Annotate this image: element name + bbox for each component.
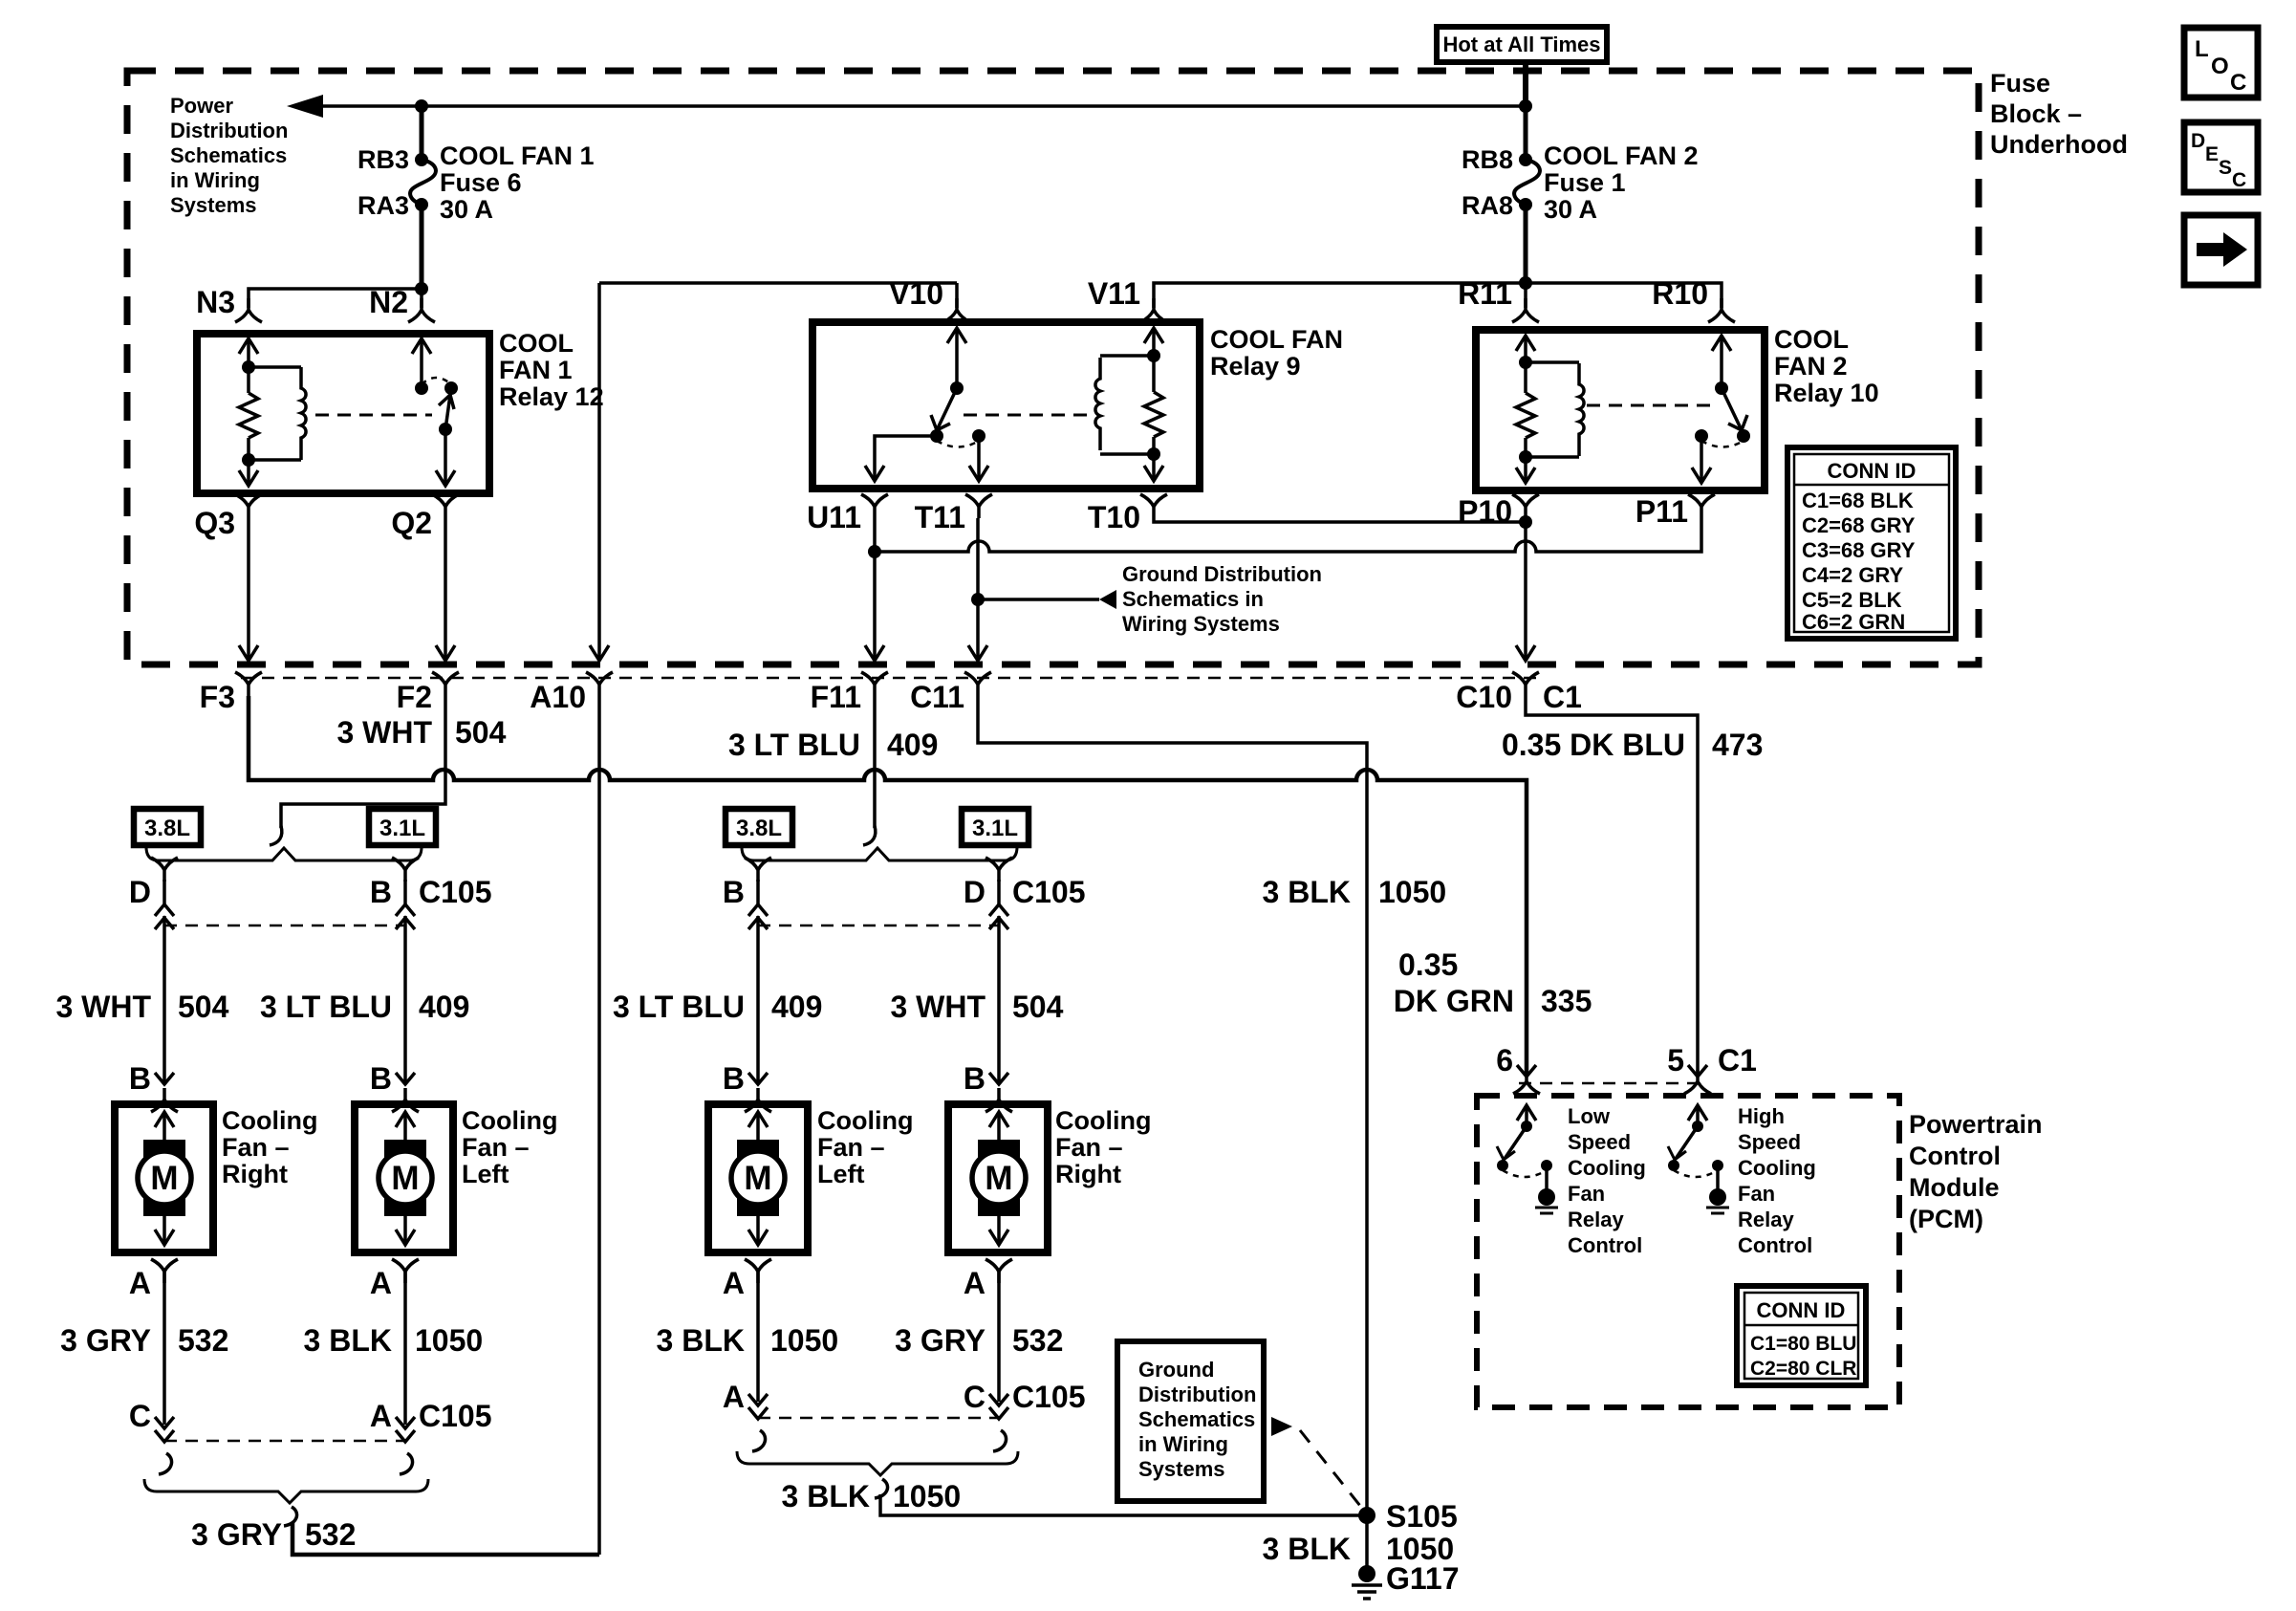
svg-text:F11: F11	[811, 680, 861, 714]
svg-text:409: 409	[771, 990, 822, 1024]
coil winding in relay 9	[1095, 356, 1154, 454]
connector F11	[861, 672, 888, 696]
motor M3: Cooling Fan Left box (middle group)	[708, 1104, 808, 1252]
svg-text:3 LT BLU: 3 LT BLU	[728, 728, 860, 762]
connector C11	[964, 672, 991, 696]
wire label: 0.35 DK GRN 335 (pin 6 net)	[1394, 947, 1592, 1018]
svg-text:1050: 1050	[1378, 875, 1446, 909]
connector R10	[1708, 298, 1735, 322]
svg-text:L: L	[2195, 36, 2209, 62]
wire: fuse 1 to R11/R10 junction	[1524, 205, 1528, 283]
wire: F3 to low-speed control bus to PCM pin 6, hops at F2/A10/F11/1050 net	[249, 696, 1527, 1073]
svg-text:Fuse 1: Fuse 1	[1544, 168, 1626, 197]
svg-text:RB3: RB3	[357, 145, 409, 174]
svg-text:C105: C105	[1012, 1380, 1086, 1414]
svg-text:Right: Right	[222, 1160, 288, 1188]
connector C at C105 (middle group bottom)	[964, 1380, 1008, 1419]
label: Cooling Fan - Right (left group)	[222, 1106, 317, 1188]
svg-text:A: A	[129, 1266, 151, 1300]
svg-text:C3=68 GRY: C3=68 GRY	[1802, 538, 1916, 562]
dashed C105 line (left group bottom)	[164, 1440, 405, 1443]
connector V10	[943, 298, 970, 322]
connector D at C105 (middle group 3.1L)	[986, 858, 1012, 929]
connector Q3	[235, 494, 262, 518]
resistor in relay 9	[1144, 356, 1163, 454]
svg-text:Control: Control	[1909, 1142, 2001, 1170]
wire label: 3 GRY 532 (merged)	[191, 1517, 356, 1552]
svg-text:Low: Low	[1568, 1104, 1611, 1128]
svg-text:Ground Distribution: Ground Distribution	[1122, 562, 1322, 586]
splice S105	[1358, 1507, 1375, 1524]
relay 9 coil exit to T10	[1144, 447, 1163, 481]
label: Powertrain Control Module (PCM)	[1909, 1110, 2043, 1233]
svg-text:532: 532	[305, 1517, 356, 1552]
relay 10 coil entry from R11	[1516, 336, 1535, 369]
connector A10	[586, 672, 613, 696]
connector A at C105 (middle group bottom)	[723, 1380, 768, 1419]
label: Cooling Fan - Left (middle group)	[817, 1106, 913, 1188]
svg-text:F2: F2	[397, 680, 432, 714]
svg-text:C2=68 GRY: C2=68 GRY	[1802, 513, 1916, 537]
label: COOL FAN 2 Fuse 1 30 A	[1544, 142, 1699, 224]
wire to ground distribution reference	[978, 598, 1099, 601]
wire: T10 to P10 junction	[1154, 518, 1526, 522]
svg-text:1050: 1050	[415, 1323, 483, 1358]
relay 10 blade rest contact	[1737, 429, 1750, 443]
svg-text:Schematics: Schematics	[170, 143, 287, 167]
junction: T11 ground reference tap	[971, 593, 985, 606]
svg-text:FAN 1: FAN 1	[499, 356, 573, 384]
svg-text:C105: C105	[1012, 875, 1086, 909]
wire: battery feed bus at top, arrow to power distribution	[321, 104, 1526, 108]
svg-text:COOL FAN: COOL FAN	[1210, 325, 1343, 354]
fuse block dashed box: Fuse Block - Underhood	[127, 71, 1979, 664]
relay 12 coil leg exit to Q3	[239, 453, 258, 486]
svg-text:C5=2 BLK: C5=2 BLK	[1802, 588, 1902, 612]
svg-text:(PCM): (PCM)	[1909, 1205, 1983, 1233]
svg-text:D: D	[129, 875, 151, 909]
junction: T10/P10	[1519, 515, 1532, 529]
svg-text:Cooling: Cooling	[817, 1106, 913, 1135]
wire label: 3 BLK 1050 (merged middle)	[782, 1479, 962, 1513]
svg-text:Relay 9: Relay 9	[1210, 352, 1301, 381]
boxed note: Ground Distribution Schematics in Wiring Systems	[1117, 1341, 1264, 1501]
brace joining 3.8L/3.1L branches (left group)	[146, 847, 422, 860]
svg-text:DK GRN: DK GRN	[1394, 984, 1514, 1018]
svg-text:A: A	[370, 1399, 392, 1433]
relay 9 switch blade with arrow	[931, 388, 957, 430]
wire: T11 down to C11	[968, 518, 987, 661]
motor M4: Cooling Fan Right box (middle group)	[948, 1104, 1048, 1252]
svg-text:Relay 12: Relay 12	[499, 382, 604, 411]
relay 12 switch common from N2	[412, 338, 431, 395]
relay 12 blade pivot	[439, 423, 452, 436]
svg-text:T11: T11	[915, 500, 965, 534]
svg-text:30 A: 30 A	[440, 195, 493, 224]
svg-text:Cooling: Cooling	[1568, 1156, 1646, 1180]
wire label: 3 GRY 532 (left group)	[60, 1323, 228, 1358]
wire label: 3 BLK 1050 (middle group)	[657, 1323, 839, 1358]
variant box 3.8L (left group)	[134, 809, 201, 845]
svg-text:C: C	[964, 1380, 986, 1414]
wire: D down to right fan	[162, 916, 166, 1082]
svg-text:Cooling: Cooling	[1055, 1106, 1151, 1135]
label: Cooling Fan - Left (left group)	[462, 1106, 557, 1188]
icon box forward arrow	[2184, 215, 2258, 285]
svg-text:C: C	[2232, 169, 2246, 191]
svg-text:Speed: Speed	[1568, 1130, 1631, 1154]
svg-text:Right: Right	[1055, 1160, 1121, 1188]
relay 12 switch throw contact	[444, 381, 458, 395]
connector F3	[235, 672, 262, 696]
connector C10	[1512, 672, 1539, 696]
relay 12 actuation dashed link	[315, 414, 432, 417]
svg-text:Fuse 6: Fuse 6	[440, 168, 522, 197]
svg-text:D: D	[2191, 130, 2205, 152]
thin dashed connector row under fuse block	[241, 677, 1544, 680]
relay 12 coil leg entry pin (from N3)	[239, 338, 258, 374]
PCM pin 6 connector	[1513, 1065, 1540, 1094]
svg-text:0.35: 0.35	[1398, 947, 1458, 982]
connector V11	[1140, 298, 1167, 322]
svg-text:RA8: RA8	[1462, 191, 1513, 220]
dashed C105 line (middle group bottom)	[758, 1417, 999, 1420]
svg-text:C105: C105	[419, 1399, 492, 1433]
svg-text:C: C	[2230, 70, 2246, 96]
svg-text:Control: Control	[1738, 1233, 1812, 1257]
relay 9 blade contact (to U11)	[930, 429, 943, 443]
svg-text:U11: U11	[807, 500, 861, 534]
svg-text:532: 532	[1012, 1323, 1063, 1358]
svg-text:A10: A10	[530, 680, 586, 714]
svg-text:3 BLK: 3 BLK	[304, 1323, 392, 1358]
connector T10	[1140, 494, 1167, 518]
wire: down to N2	[420, 289, 423, 308]
relay 9 output to T11	[969, 436, 988, 481]
svg-text:Cooling: Cooling	[222, 1106, 317, 1135]
wire Q2 down to F2	[436, 518, 455, 661]
relay 9 coil entry from V11	[1144, 328, 1163, 362]
wire: B down to left fan (middle)	[756, 916, 760, 1082]
svg-text:RB8: RB8	[1462, 145, 1513, 174]
svg-text:409: 409	[887, 728, 938, 762]
fan pin B connector (middle group right fan)	[964, 1061, 1012, 1112]
fan pin B connector (left group left fan)	[370, 1061, 419, 1112]
svg-text:C6=2 GRN: C6=2 GRN	[1802, 610, 1905, 634]
brace merging left group grounds	[144, 1479, 428, 1503]
variant box 3.1L (middle group)	[962, 809, 1029, 845]
wire: branch to N3	[249, 289, 422, 308]
wire: A10 drop inside fuse block	[590, 283, 609, 661]
wire: A10 riser below fuse block	[597, 696, 601, 1555]
svg-text:RA3: RA3	[357, 191, 409, 220]
fuse F1: COOL FAN 2 Fuse 1 30 A	[1514, 153, 1540, 211]
motor M3 internals	[731, 1112, 785, 1245]
svg-text:A: A	[964, 1266, 986, 1300]
fan pin A connector (left group right fan)	[129, 1259, 178, 1425]
svg-text:V11: V11	[1088, 276, 1140, 311]
svg-text:Distribution: Distribution	[170, 119, 288, 142]
svg-text:in Wiring: in Wiring	[1138, 1432, 1228, 1456]
connector B at C105 (left group 3.1L)	[392, 858, 419, 929]
svg-text:Module: Module	[1909, 1173, 2000, 1202]
wire: A10/V10 net horizontal	[599, 281, 957, 285]
connector N3	[235, 298, 262, 322]
svg-text:Fan –: Fan –	[1055, 1133, 1123, 1162]
motor M1: Cooling Fan Right box (left group)	[115, 1104, 213, 1252]
pigtail below A (middle group)	[752, 1430, 766, 1451]
svg-text:S: S	[2219, 157, 2232, 179]
svg-text:Fuse: Fuse	[1990, 69, 2050, 98]
svg-text:473: 473	[1712, 728, 1763, 762]
svg-text:504: 504	[1012, 990, 1064, 1024]
motor M1 internals	[138, 1112, 191, 1245]
brace merging middle group grounds	[737, 1451, 1018, 1475]
svg-text:COOL FAN 1: COOL FAN 1	[440, 142, 595, 170]
svg-text:F3: F3	[200, 680, 235, 714]
wire: down to R11	[1524, 283, 1527, 308]
wire: P10 down to C10	[1516, 518, 1535, 661]
pigtail below C (left group)	[159, 1453, 172, 1474]
svg-text:Left: Left	[817, 1160, 865, 1188]
svg-text:532: 532	[178, 1323, 228, 1358]
svg-text:504: 504	[178, 990, 229, 1024]
svg-text:Schematics: Schematics	[1138, 1407, 1255, 1431]
svg-text:A: A	[723, 1266, 745, 1300]
wire: V11 riser to fuse 1 feed	[1154, 283, 1526, 308]
connector A at C105 (left group bottom)	[370, 1399, 415, 1442]
svg-text:Control: Control	[1568, 1233, 1642, 1257]
svg-text:Distribution: Distribution	[1138, 1382, 1256, 1406]
label: High Speed Cooling Fan Relay Control	[1738, 1104, 1816, 1257]
label: Low Speed Cooling Fan Relay Control	[1568, 1104, 1646, 1257]
svg-text:1050: 1050	[893, 1479, 961, 1513]
svg-text:3 GRY: 3 GRY	[191, 1517, 282, 1552]
svg-text:C1=80 BLU: C1=80 BLU	[1750, 1333, 1856, 1355]
label: COOL FAN 1 Fuse 6 30 A	[440, 142, 595, 224]
svg-text:3 WHT: 3 WHT	[55, 990, 151, 1024]
arrow: off-page to power distribution (filled, pointing left)	[287, 95, 323, 118]
svg-text:P11: P11	[1635, 494, 1688, 529]
wire: C10 down, jog right, down to PCM pin 5	[1526, 696, 1698, 1073]
dashed arc between relay 9 contacts	[937, 441, 979, 447]
coil winding in relay 10	[1526, 362, 1584, 457]
connector Q2	[432, 494, 459, 518]
CONN ID table (PCM)	[1737, 1286, 1866, 1385]
wire label: 3 LT BLU 409	[728, 728, 938, 762]
wire label: 0.35 DK BLU 473	[1502, 728, 1763, 762]
wire: feed down to fuse 6	[420, 106, 424, 160]
pigtail below A (left group)	[400, 1453, 413, 1474]
wire: C11 down, jog right, down to S105 (3 BLK 1050)	[978, 696, 1367, 1515]
svg-text:Systems: Systems	[170, 193, 257, 217]
svg-text:A: A	[723, 1380, 745, 1414]
svg-text:5: 5	[1667, 1043, 1684, 1078]
variant box 3.8L (middle group)	[726, 809, 792, 845]
dashed C105 line (middle group top)	[758, 925, 999, 927]
svg-text:COOL: COOL	[1774, 325, 1849, 354]
dashed arc between relay 10 contacts	[1701, 441, 1744, 447]
relay 9 switch common from V10	[947, 328, 966, 395]
svg-text:Power: Power	[170, 94, 233, 118]
svg-text:N3: N3	[196, 285, 235, 319]
motor M2: Cooling Fan Left box (left group)	[355, 1104, 453, 1252]
wire label: 3 WHT 504 (left group)	[55, 990, 228, 1024]
svg-text:G117: G117	[1386, 1561, 1460, 1596]
wire: feed down to fuse 1	[1524, 106, 1528, 160]
svg-text:30 A: 30 A	[1544, 195, 1597, 224]
pigtail at merged 1050 wire	[875, 1479, 888, 1498]
wire: branch to R10	[1526, 283, 1722, 308]
dashed C105 line (left group top)	[164, 925, 405, 927]
PCM low speed driver switch	[1497, 1105, 1558, 1213]
wire: B down to left fan	[403, 916, 407, 1082]
svg-text:Wiring Systems: Wiring Systems	[1122, 612, 1280, 636]
svg-text:B: B	[964, 1061, 986, 1096]
connector C at C105 (left group bottom)	[129, 1399, 174, 1442]
svg-text:Fan –: Fan –	[462, 1133, 530, 1162]
svg-text:Powertrain: Powertrain	[1909, 1110, 2043, 1139]
svg-text:R10: R10	[1652, 276, 1708, 311]
wire label: 3 LT BLU 409 (middle group)	[613, 990, 822, 1024]
wire label: 3 BLK 1050 (C11 net)	[1263, 875, 1447, 909]
svg-text:C10: C10	[1456, 680, 1512, 714]
wire: U11 down to F11	[865, 518, 884, 661]
label: Cooling Fan - Right (middle group)	[1055, 1106, 1151, 1188]
svg-text:Fan: Fan	[1568, 1182, 1605, 1206]
relay 12 switch blade with arrow	[439, 395, 454, 429]
note: Power Distribution Schematics in Wiring Systems	[170, 94, 288, 217]
wire: merged 3 GRY 532 to A10 riser	[292, 1522, 599, 1555]
svg-text:Fan –: Fan –	[817, 1133, 885, 1162]
svg-text:FAN 2: FAN 2	[1774, 352, 1848, 381]
fan pin B connector (left group right fan)	[129, 1061, 178, 1112]
svg-text:O: O	[2211, 54, 2229, 79]
motor M2 internals	[379, 1112, 432, 1245]
svg-text:Schematics in: Schematics in	[1122, 587, 1264, 611]
svg-text:3 GRY: 3 GRY	[60, 1323, 151, 1358]
label: COOL FAN 2 Relay 10	[1774, 325, 1879, 407]
coil winding in relay 12	[249, 367, 306, 460]
svg-text:C2=80 CLR: C2=80 CLR	[1750, 1358, 1856, 1380]
svg-text:Ground: Ground	[1138, 1358, 1214, 1382]
note: Ground Distribution Schematics in Wiring Systems	[1122, 562, 1322, 636]
motor M4 internals	[972, 1112, 1026, 1245]
svg-text:3.8L: 3.8L	[144, 816, 190, 841]
svg-text:Cooling: Cooling	[462, 1106, 557, 1135]
svg-text:Systems: Systems	[1138, 1457, 1225, 1481]
svg-text:Q2: Q2	[391, 506, 432, 540]
svg-text:3 WHT: 3 WHT	[336, 715, 432, 750]
svg-text:3 GRY: 3 GRY	[895, 1323, 986, 1358]
dashed connector line at PCM pins	[1519, 1082, 1707, 1085]
arrow: ground distribution reference to S105 (filled)	[1271, 1417, 1292, 1436]
svg-text:in Wiring: in Wiring	[170, 168, 260, 192]
junction on feed at fuse 1 drop	[1519, 99, 1532, 113]
svg-text:504: 504	[455, 715, 507, 750]
svg-text:3 BLK: 3 BLK	[1263, 875, 1351, 909]
svg-text:Cooling: Cooling	[1738, 1156, 1816, 1180]
fuse F6: COOL FAN 1 Fuse 6 30 A	[410, 153, 436, 211]
connector P10	[1512, 494, 1539, 518]
junction on feed at fuse 6 drop	[415, 99, 428, 113]
svg-text:COOL: COOL	[499, 329, 574, 358]
svg-text:C4=2 GRY: C4=2 GRY	[1802, 563, 1904, 587]
svg-text:C1: C1	[1543, 680, 1582, 714]
wire label: 3 GRY 532 (middle group)	[895, 1323, 1063, 1358]
wire label: 3 WHT 504 (middle group)	[890, 990, 1063, 1024]
svg-text:B: B	[370, 875, 392, 909]
PCM pin 5 connector	[1684, 1065, 1711, 1094]
svg-text:0.35 DK BLU: 0.35 DK BLU	[1502, 728, 1685, 762]
connector N2	[408, 298, 435, 322]
relay 9 output to U11	[865, 436, 937, 481]
wire label: 3 WHT 504	[336, 715, 506, 750]
wire Q3 down to F3	[239, 518, 258, 661]
svg-text:T10: T10	[1088, 500, 1140, 534]
junction: N3/N2 split	[415, 282, 428, 295]
selector pigtail (left group)	[270, 826, 282, 845]
svg-text:N2: N2	[369, 285, 408, 319]
brace joining 3.8L/3.1L branches (middle group)	[742, 847, 1017, 860]
svg-text:COOL FAN 2: COOL FAN 2	[1544, 142, 1699, 170]
arrow: ground distribution reference (filled)	[1099, 590, 1116, 609]
wire label: 3 BLK 1050 (left group)	[304, 1323, 484, 1358]
svg-text:Block –: Block –	[1990, 99, 2082, 128]
relay 10 switch common from R10	[1712, 336, 1731, 395]
svg-text:D: D	[964, 875, 986, 909]
svg-text:3 BLK: 3 BLK	[782, 1479, 870, 1513]
connector F2	[432, 672, 459, 696]
svg-text:1050: 1050	[770, 1323, 838, 1358]
fan pin A connector (middle group left fan)	[723, 1259, 771, 1402]
icon box LOC (top right)	[2184, 28, 2258, 98]
wire: V10 drop	[955, 283, 959, 308]
svg-text:3.1L: 3.1L	[972, 816, 1018, 841]
svg-text:V10: V10	[889, 276, 943, 311]
resistor in relay 10	[1516, 362, 1535, 457]
svg-text:C: C	[129, 1399, 151, 1433]
svg-text:3 BLK: 3 BLK	[657, 1323, 745, 1358]
icon box DESC	[2184, 122, 2258, 192]
CONN ID table (fuse block)	[1787, 447, 1956, 639]
wire: Hot at All Times down to feed	[1523, 62, 1528, 108]
connector R11	[1512, 298, 1539, 322]
svg-text:3 LT BLU: 3 LT BLU	[613, 990, 745, 1024]
label: COOL FAN Relay 9	[1210, 325, 1343, 381]
svg-text:C1: C1	[1718, 1043, 1757, 1078]
connector D at C105 (left group 3.8L)	[151, 858, 178, 929]
svg-text:CONN ID: CONN ID	[1757, 1298, 1846, 1322]
fan pin A connector (left group left fan)	[370, 1259, 419, 1425]
svg-text:Underhood: Underhood	[1990, 130, 2128, 159]
relay K12: COOL FAN 1 Relay 12 box	[197, 334, 489, 493]
fan pin A connector (middle group right fan)	[964, 1259, 1012, 1402]
relay 10 coil exit to P10	[1516, 450, 1535, 483]
svg-text:335: 335	[1541, 984, 1592, 1018]
svg-text:3 LT BLU: 3 LT BLU	[260, 990, 392, 1024]
wire: F2 down and jog left to engine selector	[281, 696, 445, 828]
svg-text:Q3: Q3	[194, 506, 235, 540]
wire: merged 3 BLK 1050 down to S105	[880, 1494, 1367, 1515]
connector U11	[861, 494, 888, 518]
svg-text:E: E	[2205, 143, 2219, 165]
svg-text:Fan –: Fan –	[222, 1133, 290, 1162]
svg-text:Speed: Speed	[1738, 1130, 1801, 1154]
svg-text:High: High	[1738, 1104, 1785, 1128]
svg-text:Fan: Fan	[1738, 1182, 1775, 1206]
svg-text:CONN ID: CONN ID	[1828, 459, 1917, 483]
